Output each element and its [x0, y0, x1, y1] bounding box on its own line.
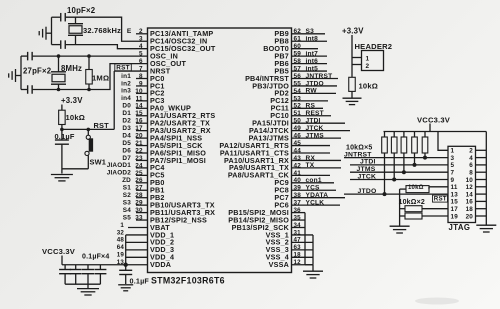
wire SW1 to ground stem: [62, 168, 88, 170]
wire header pin1: [352, 57, 362, 59]
node VSS bus: [292, 213, 314, 265]
svg-text:RX: RX: [306, 155, 316, 162]
label C3 C4 value 27pF×2: [23, 67, 52, 76]
svg-text:47: 47: [294, 237, 302, 244]
svg-text:10pF×2: 10pF×2: [67, 6, 96, 15]
svg-text:17: 17: [135, 125, 143, 132]
wire left bus Y1: [20, 56, 22, 89]
label C5 value 0.1µF: [55, 132, 75, 141]
svg-text:51: 51: [294, 110, 302, 117]
svg-text:RST: RST: [94, 121, 110, 130]
svg-text:S3: S3: [306, 28, 315, 35]
svg-text:20: 20: [135, 133, 143, 140]
wire bottom rail to ground: [87, 284, 89, 288]
wire C5 to ground: [61, 144, 63, 173]
label R10 R11 value 10kΩ×2: [399, 199, 425, 206]
svg-text:48: 48: [117, 237, 125, 244]
label net JTDI: [360, 159, 376, 166]
power label VCC3.3V JTAG: [417, 116, 451, 125]
label R4-R8 value 10kΩ×5: [346, 145, 372, 152]
wire J2 pin1 to VCC: [438, 132, 448, 151]
ground pulldowns: [390, 226, 410, 233]
svg-text:49: 49: [294, 125, 302, 132]
wire J2 bus to ground: [485, 216, 487, 225]
svg-text:VCC3.3V: VCC3.3V: [42, 247, 76, 256]
svg-text:32: 32: [117, 229, 125, 236]
wire RST to NRST pin: [114, 71, 147, 129]
svg-text:JTMS: JTMS: [357, 166, 376, 173]
ground VSS: [303, 271, 323, 278]
label net RST: [94, 121, 110, 130]
ground J2: [476, 225, 496, 232]
svg-text:10kΩ×2: 10kΩ×2: [399, 199, 425, 206]
svg-text:0.1µF: 0.1µF: [55, 132, 75, 141]
svg-text:TX: TX: [306, 162, 315, 169]
svg-text:10kΩ: 10kΩ: [66, 113, 86, 122]
svg-text:37: 37: [294, 200, 302, 207]
svg-text:10: 10: [466, 177, 474, 184]
svg-text:64: 64: [117, 244, 125, 251]
wire R2 to RST node: [61, 125, 63, 130]
capacitor C2 10pF: [61, 40, 66, 49]
resistor R9 10kΩ RTCK pulldown: [400, 186, 448, 193]
svg-text:28: 28: [135, 192, 143, 199]
wire +3.3V to header: [351, 35, 353, 77]
svg-text:10: 10: [135, 88, 143, 95]
label net JTCK: [358, 173, 377, 180]
resistor R2 10kΩ: [59, 110, 66, 124]
svg-text:E: E: [127, 28, 132, 35]
svg-text:9: 9: [139, 80, 143, 87]
wire R3 to ground: [351, 91, 353, 97]
svg-text:S5: S5: [123, 214, 131, 221]
wire VSS bus to ground: [312, 265, 314, 271]
svg-text:YDATA: YDATA: [306, 192, 329, 199]
svg-text:45: 45: [294, 140, 302, 147]
crystal Y1 8MHz: [51, 55, 66, 91]
capacitor C3 27pF: [28, 52, 33, 61]
capacitor C1 10pF: [61, 13, 66, 22]
svg-text:JTCK: JTCK: [358, 173, 377, 180]
svg-text:29: 29: [135, 200, 143, 207]
svg-text:int8: int8: [306, 36, 319, 43]
svg-text:22: 22: [135, 147, 143, 154]
svg-text:0.1µF×4: 0.1µF×4: [82, 254, 109, 261]
power +3.3V reset: [61, 96, 83, 105]
wire net JNTRST: [344, 157, 448, 159]
svg-text:27pF×2: 27pF×2: [23, 67, 52, 76]
svg-text:5: 5: [451, 162, 455, 169]
node J2 even pin bus: [476, 132, 487, 217]
svg-text:con1: con1: [306, 177, 322, 184]
label R9 value 10kΩ: [408, 185, 424, 191]
svg-text:41: 41: [294, 170, 302, 177]
U1 left net labels in1-in4 D0-D7 JIAOD1 JIAOD2 ZD S1-S5: [107, 73, 132, 222]
power +3.3V header: [342, 27, 364, 36]
svg-text:9: 9: [451, 177, 455, 184]
svg-text:8MHz: 8MHz: [61, 64, 82, 73]
svg-text:40: 40: [294, 177, 302, 184]
capacitor C5 0.1µF: [55, 129, 69, 144]
svg-text:VCC3.3V: VCC3.3V: [417, 116, 451, 125]
svg-text:14: 14: [466, 191, 474, 198]
label C10 value 0.1µF: [130, 277, 150, 286]
svg-text:VDDA: VDDA: [150, 260, 171, 269]
svg-text:53: 53: [294, 95, 302, 102]
svg-text:15: 15: [451, 199, 459, 206]
svg-text:46: 46: [294, 133, 302, 140]
svg-text:S2: S2: [123, 192, 131, 199]
node RST junction wire: [61, 128, 115, 131]
label Y1 value 8MHz: [61, 64, 82, 73]
svg-text:D4: D4: [122, 132, 131, 139]
svg-text:13: 13: [451, 191, 459, 198]
svg-text:11: 11: [136, 95, 143, 102]
wire ground arm Y2: [46, 32, 52, 34]
svg-text:27: 27: [135, 185, 143, 192]
svg-text:HEADER2: HEADER2: [355, 42, 393, 51]
svg-text:D5: D5: [122, 140, 131, 147]
svg-text:JTDI: JTDI: [360, 159, 376, 166]
svg-text:RS: RS: [306, 103, 316, 110]
J2 JTAG pin numbers: [451, 148, 474, 221]
label net JNTRST: [344, 151, 372, 158]
svg-text:D7: D7: [122, 155, 131, 162]
svg-text:JTDI: JTDI: [306, 118, 321, 125]
wire ground arm Y1: [16, 75, 22, 77]
svg-text:34: 34: [294, 222, 302, 229]
capacitor C6 C7 C8 C9 0.1µF bank: [59, 265, 106, 284]
svg-text:int6: int6: [306, 58, 319, 65]
svg-text:31: 31: [294, 229, 302, 236]
svg-text:63: 63: [294, 244, 302, 251]
svg-text:YCLK: YCLK: [306, 199, 325, 206]
svg-text:+3.3V: +3.3V: [342, 27, 364, 36]
svg-text:YCS: YCS: [306, 185, 321, 192]
resistor R11 10kΩ pulldown pin19: [400, 213, 448, 219]
U1 right pin numbers: [294, 28, 302, 206]
resistor R3 10kΩ: [349, 77, 356, 91]
svg-text:20: 20: [466, 213, 474, 220]
svg-text:JTDO: JTDO: [306, 80, 324, 87]
svg-text:15: 15: [135, 110, 143, 117]
svg-text:42: 42: [294, 162, 302, 169]
svg-text:JIAOD1: JIAOD1: [107, 162, 132, 169]
switch SW1 reset button: [85, 129, 93, 168]
U1 right pin wires: [292, 34, 351, 205]
resistor R7 10kΩ pull to JTDI: [412, 132, 418, 167]
U1 right net labels S3 int5-int8 JNTRST JTDO RW RS REST JTDI JTCK JTMS RX TX con1 YCS YDATA YCLK: [306, 28, 333, 206]
svg-text:18: 18: [294, 252, 302, 259]
capacitor C10 0.1µF: [119, 265, 132, 284]
svg-text:RST: RST: [116, 65, 129, 72]
svg-text:43: 43: [294, 155, 302, 162]
label net RST at NRST: [115, 64, 132, 72]
node VCC rail JTAG: [384, 131, 487, 133]
svg-text:44: 44: [294, 147, 302, 154]
svg-text:in1: in1: [121, 73, 131, 80]
svg-text:16: 16: [466, 199, 474, 206]
svg-text:D1: D1: [122, 110, 131, 117]
label R1 value 1MΩ: [92, 74, 109, 83]
wire J2 pin15 RST: [447, 200, 450, 202]
node OSC_IN wire: [21, 55, 148, 57]
svg-text:24: 24: [135, 162, 143, 169]
svg-text:57: 57: [294, 65, 302, 72]
svg-text:1: 1: [366, 56, 370, 63]
svg-text:17: 17: [451, 206, 459, 213]
wire net JTCK: [350, 179, 448, 181]
label net JTDO: [358, 188, 377, 195]
label R3 value 10kΩ: [359, 82, 379, 91]
wire net JTMS: [350, 171, 448, 173]
svg-text:JIAOD2: JIAOD2: [107, 170, 132, 177]
label J2 JTAG: [449, 223, 471, 232]
svg-text:ZD: ZD: [122, 177, 131, 184]
resistor R1 1MΩ: [86, 55, 93, 91]
svg-text:12: 12: [294, 259, 302, 266]
svg-text:38: 38: [294, 192, 302, 199]
U1 VSS pin numbers: [294, 207, 302, 266]
svg-text:1MΩ: 1MΩ: [92, 74, 109, 83]
svg-text:3: 3: [451, 155, 455, 162]
wire +3.3V to R2: [61, 105, 63, 111]
svg-text:REST: REST: [306, 110, 324, 117]
svg-text:+3.3V: +3.3V: [61, 96, 83, 105]
svg-text:13: 13: [117, 259, 125, 266]
resistor R6 10kΩ pull to JTMS: [401, 132, 407, 174]
svg-text:in3: in3: [121, 88, 131, 95]
svg-text:1: 1: [451, 148, 455, 155]
wire net JTDO: [344, 193, 448, 195]
label net RST JTAG: [433, 195, 448, 203]
svg-text:8: 8: [139, 73, 143, 80]
svg-text:32.768kHz: 32.768kHz: [83, 26, 121, 35]
svg-text:39: 39: [294, 185, 302, 192]
node Y2 bottom wire: [52, 45, 148, 49]
svg-text:10kΩ: 10kΩ: [408, 185, 424, 191]
svg-text:25: 25: [135, 170, 143, 177]
crystal Y2 32.768kHz: [68, 17, 83, 44]
label SW1: [90, 158, 107, 167]
label net JTMS: [357, 166, 376, 173]
svg-text:int5: int5: [306, 65, 319, 72]
wire pulldown ground bus: [399, 189, 401, 225]
svg-text:56: 56: [294, 73, 302, 80]
U1 VBAT stub: [128, 227, 148, 229]
svg-text:1: 1: [120, 222, 124, 229]
wire cap bank bottom rail: [65, 283, 100, 285]
ground cap bank: [77, 289, 99, 295]
ground R3: [343, 98, 362, 104]
svg-text:7: 7: [451, 170, 455, 177]
svg-text:30: 30: [135, 207, 143, 214]
wire VCC tick JTAG: [429, 124, 431, 132]
svg-text:JTDO: JTDO: [358, 188, 377, 195]
svg-text:8: 8: [469, 170, 473, 177]
resistor R5 10kΩ pull to JTCK: [391, 132, 397, 182]
svg-text:58: 58: [294, 58, 302, 65]
svg-text:23: 23: [135, 155, 143, 162]
svg-text:VSSA: VSSA: [269, 260, 289, 269]
svg-text:D6: D6: [122, 147, 131, 154]
svg-text:STM32F103R6T6: STM32F103R6T6: [151, 276, 225, 286]
label J1 HEADER2: [355, 42, 393, 51]
U1 left pin numbers: [135, 28, 143, 221]
wire VCC tick: [61, 256, 63, 265]
svg-text:12: 12: [466, 184, 474, 191]
ground reset: [51, 175, 73, 181]
label Y2 value 32.768kHz: [83, 26, 121, 35]
svg-text:RW: RW: [306, 88, 318, 95]
resistor R8 10kΩ pull to JNTRST: [422, 132, 428, 160]
svg-text:SW1: SW1: [90, 158, 107, 167]
svg-text:in2: in2: [121, 80, 131, 87]
svg-text:19: 19: [451, 213, 459, 220]
U1 left pin stubs: [136, 34, 148, 220]
label C6-C9 value 0.1µF×4: [82, 254, 109, 261]
node VDD bus: [126, 235, 148, 265]
svg-text:61: 61: [294, 36, 302, 43]
svg-text:S3: S3: [123, 199, 131, 206]
svg-text:10kΩ: 10kΩ: [359, 82, 379, 91]
svg-text:21: 21: [135, 140, 143, 147]
resistor R4 10kΩ pull to JTDO: [382, 132, 388, 196]
ground for Y2 caps: [39, 27, 46, 40]
svg-text:35: 35: [294, 214, 302, 221]
svg-text:52: 52: [294, 103, 302, 110]
svg-text:JTMS: JTMS: [306, 132, 325, 139]
U1 VDD VBAT pin numbers: [117, 222, 125, 266]
svg-text:int7: int7: [306, 50, 319, 57]
U1 part label STM32F103R6T6: [151, 276, 225, 286]
svg-text:D0: D0: [122, 103, 131, 110]
connector J1 HEADER2: [362, 51, 384, 71]
connector J2 JTAG outline: [448, 146, 476, 222]
svg-text:S1: S1: [123, 185, 131, 192]
resistor R10 10kΩ pulldown pin17: [400, 206, 448, 212]
label C1 C2 value 10pF×2: [67, 6, 96, 15]
svg-text:JNTRST: JNTRST: [344, 151, 372, 158]
wire left bus Y2: [51, 17, 53, 44]
svg-text:4: 4: [469, 155, 473, 162]
svg-text:6: 6: [469, 162, 473, 169]
node VCC rail: [62, 263, 127, 266]
svg-text:16: 16: [135, 118, 143, 125]
svg-text:2: 2: [469, 148, 473, 155]
ground C10: [118, 285, 133, 291]
svg-text:in4: in4: [121, 95, 131, 102]
svg-text:2: 2: [139, 28, 143, 35]
svg-text:59: 59: [294, 51, 302, 58]
svg-text:14: 14: [135, 103, 143, 110]
svg-text:50: 50: [294, 118, 302, 125]
wire header pin2: [352, 64, 362, 66]
label R2 value 10kΩ: [66, 113, 86, 122]
svg-text:54: 54: [294, 88, 302, 95]
power label VCC3.3V left: [42, 247, 76, 256]
svg-text:26: 26: [135, 177, 143, 184]
svg-text:2: 2: [366, 63, 370, 70]
svg-text:19: 19: [117, 252, 125, 259]
svg-text:S4: S4: [123, 207, 131, 214]
IC U1 STM32F103R6T6 MCU body: [148, 28, 292, 273]
svg-text:62: 62: [294, 28, 302, 35]
svg-text:55: 55: [294, 80, 302, 87]
svg-text:D2: D2: [122, 118, 131, 125]
svg-text:RST: RST: [434, 196, 447, 203]
svg-text:D3: D3: [122, 125, 131, 132]
wire net JTDI: [350, 164, 448, 166]
svg-text:JNTRST: JNTRST: [306, 73, 333, 80]
capacitor C4 27pF: [28, 85, 33, 94]
node OSC_OUT wire: [21, 64, 148, 90]
ground for Y1 caps: [9, 69, 16, 82]
svg-text:36: 36: [294, 207, 302, 214]
svg-text:33: 33: [135, 214, 143, 221]
label net E: [127, 28, 132, 35]
svg-text:JTAG: JTAG: [449, 223, 471, 232]
svg-text:JTCK: JTCK: [306, 125, 324, 132]
node Y2 top wire: [52, 17, 148, 41]
svg-text:11: 11: [451, 184, 458, 191]
svg-text:18: 18: [466, 206, 474, 213]
svg-text:60: 60: [294, 43, 302, 50]
